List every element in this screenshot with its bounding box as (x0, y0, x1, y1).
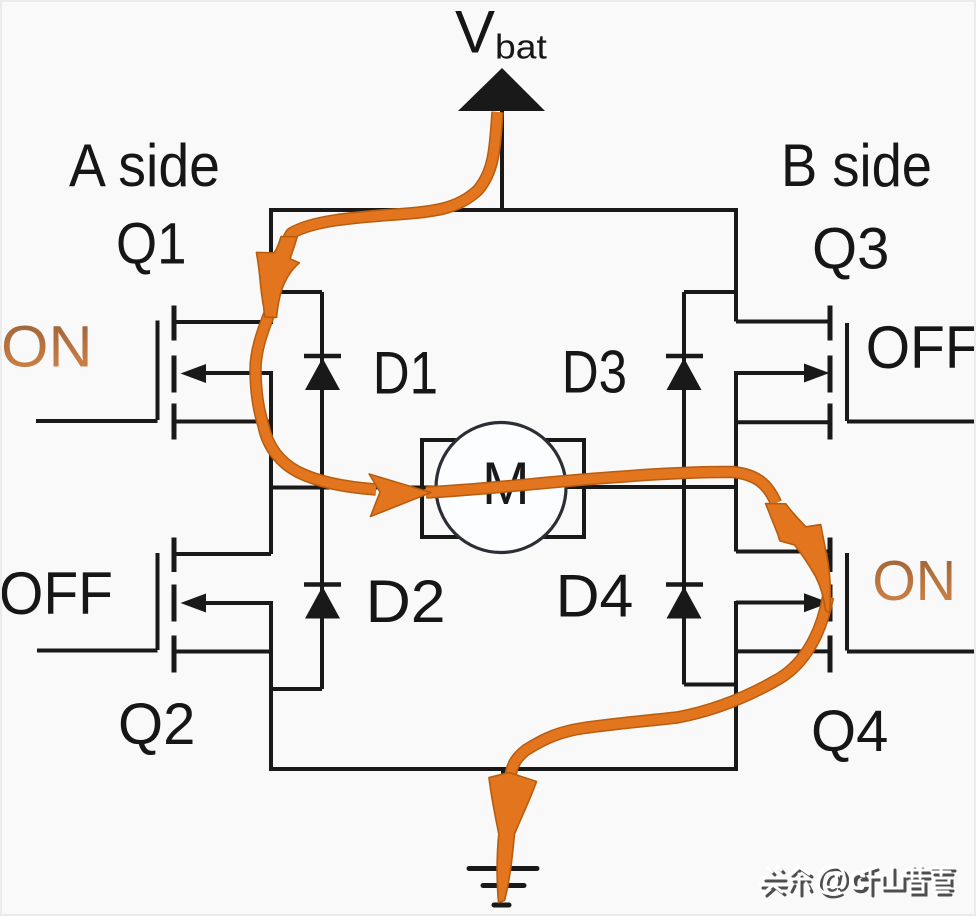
svg-text:bat: bat (495, 29, 547, 67)
svg-text:Q2: Q2 (118, 692, 195, 757)
svg-text:V: V (455, 0, 495, 66)
svg-text:ON: ON (872, 549, 956, 613)
svg-text:Q3: Q3 (812, 217, 889, 282)
svg-text:B side: B side (781, 132, 932, 199)
svg-text:Q4: Q4 (811, 699, 888, 764)
svg-text:OFF: OFF (0, 560, 113, 627)
svg-text:D3: D3 (562, 339, 627, 406)
svg-text:D4: D4 (556, 563, 634, 630)
svg-text:A side: A side (69, 132, 220, 199)
svg-text:D1: D1 (373, 340, 438, 407)
svg-text:ON: ON (1, 315, 93, 380)
svg-text:D2: D2 (366, 568, 446, 635)
svg-text:Q1: Q1 (116, 212, 187, 277)
svg-text:@c: @c (815, 860, 867, 898)
svg-text:OFF: OFF (866, 314, 976, 381)
